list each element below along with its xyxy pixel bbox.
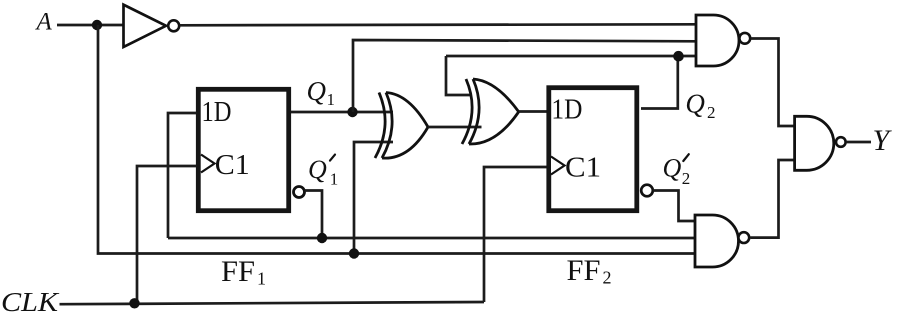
wire XOR2 output to FF2 1D [519, 110, 547, 113]
svg-text:FF: FF [221, 255, 255, 288]
svg-text:FF: FF [567, 254, 601, 287]
NAND gate N3 (output) [795, 116, 846, 170]
node A [92, 20, 102, 30]
node CLK [129, 298, 139, 308]
wire Q1' to Q1'-line [305, 191, 323, 239]
wire Q1 to NAND1 input 2 [353, 40, 696, 112]
svg-text:C1: C1 [215, 150, 250, 181]
wire NAND1 output to NAND3 upper input [751, 39, 795, 127]
label Q1' [308, 155, 338, 189]
svg-text:A: A [35, 9, 53, 36]
svg-text:1D: 1D [202, 97, 232, 128]
wire Q1'-line (horizontal to NAND2 input 2) [168, 237, 695, 240]
wire D input of FF1 (from Q1'-line) [168, 113, 197, 238]
node Q1' on Q1'-line [317, 233, 327, 243]
label FF1 [221, 255, 266, 289]
svg-text:1: 1 [330, 169, 339, 188]
svg-text:1: 1 [327, 90, 336, 109]
label Q1 [307, 76, 336, 109]
node Q2 on Q2-line [673, 51, 684, 62]
wire Q2 output up to Q2-line [641, 56, 678, 109]
flip-flop FF1 [198, 89, 288, 210]
svg-text:Q: Q [685, 89, 705, 119]
svg-text:Q: Q [663, 154, 682, 183]
Q2' output bubble of FF2 [641, 185, 653, 197]
label Q2' [663, 154, 691, 189]
flip-flop FF2 [549, 88, 637, 211]
wire CLK to FF2 C1 [484, 167, 547, 302]
XOR gate X1 [375, 93, 428, 159]
svg-text:2: 2 [603, 268, 612, 288]
wire XOR1 output to XOR2 lower input [428, 126, 482, 129]
svg-text:CLK: CLK [1, 287, 60, 317]
svg-text:1: 1 [257, 269, 266, 289]
wire Q2-line to NAND1 input 3 [446, 55, 696, 58]
NAND gate N2 (bottom right) [695, 215, 749, 267]
svg-text:2: 2 [707, 103, 716, 122]
NAND gate N1 (top right) [696, 15, 750, 66]
label Q2 [685, 89, 715, 123]
wire A vertical and bottom A-line to NAND2 input 3 [98, 25, 695, 254]
XOR gate X2 [462, 79, 519, 144]
node Q1 [347, 107, 357, 117]
wire A' to NAND1 input 1 [180, 24, 696, 25]
svg-text:Q: Q [308, 155, 327, 184]
svg-text:2: 2 [682, 169, 691, 188]
svg-text:1D: 1D [551, 95, 582, 126]
svg-text:C1: C1 [565, 153, 601, 184]
wire A input [57, 24, 123, 27]
svg-text:Q: Q [307, 76, 327, 106]
label A [35, 9, 53, 36]
inverter (NOT gate) [124, 5, 180, 47]
wire NAND2 output to NAND3 lower input [751, 160, 795, 238]
wire CLK [60, 302, 485, 304]
wire Q2' to NAND2 input 1 [653, 191, 695, 222]
Q1' output bubble of FF1 [294, 187, 305, 198]
node on A-line (XOR1 lower input) [349, 248, 359, 258]
label FF2 [567, 254, 612, 288]
wire CLK to FF1 C1 [137, 166, 197, 303]
wire Q1 output to XOR1 input [291, 111, 393, 114]
label Y [873, 124, 893, 157]
wire XOR2 upper input from Q2-line [446, 56, 472, 95]
wire output Y [846, 141, 871, 144]
label CLK [1, 287, 60, 317]
wire XOR1 lower input from A-line [354, 142, 393, 254]
